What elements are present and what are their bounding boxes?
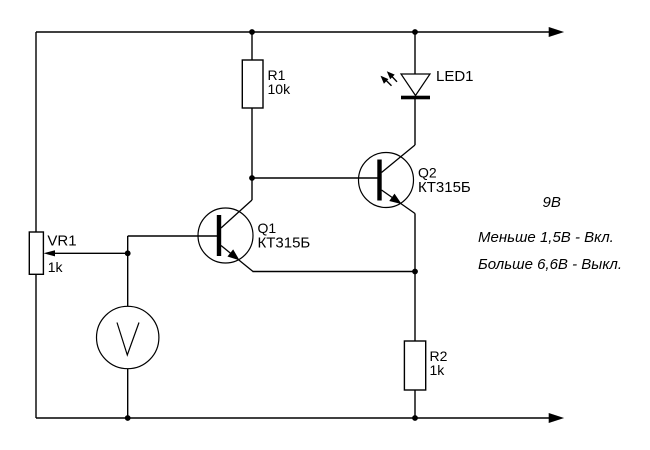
- wire Q1 base lead: [128, 235, 217, 237]
- wire Q2 emitter vertical: [414, 214, 416, 272]
- node Q1/Q2 emitter junction: [412, 269, 418, 275]
- wire top supply rail: [36, 31, 551, 33]
- voltmeter V: [97, 306, 159, 368]
- wire node to Q2 base: [252, 177, 378, 179]
- node LED top junction: [412, 29, 418, 35]
- resistor R2: [404, 341, 425, 390]
- wire R1 bottom lead to node: [251, 108, 253, 200]
- wire left vertical rail: [35, 32, 37, 418]
- resistor R1: [242, 60, 263, 108]
- supply arrow bottom right: [549, 413, 563, 422]
- svg-text:КТ315Б: КТ315Б: [258, 235, 311, 252]
- wire Q1 base to wiper and voltmeter: [127, 236, 129, 307]
- svg-text:1k: 1k: [430, 362, 446, 378]
- node R1 bottom / Q2 base junction: [249, 175, 255, 181]
- svg-text:КТ315Б: КТ315Б: [418, 179, 471, 196]
- node wiper junction: [125, 250, 131, 256]
- wire Q1 emitter horizontal to node: [253, 271, 416, 273]
- transistor Q2: [359, 145, 416, 214]
- node R2 bottom junction: [412, 415, 418, 421]
- svg-text:LED1: LED1: [436, 68, 474, 85]
- svg-text:9В: 9В: [543, 194, 561, 211]
- svg-text:VR1: VR1: [47, 233, 76, 250]
- node voltmeter bottom junction: [125, 415, 131, 421]
- potentiometer VR1: [29, 232, 127, 274]
- wire bottom rail: [36, 417, 551, 419]
- supply arrow top right: [549, 27, 563, 36]
- svg-text:Больше 6,6В - Выкл.: Больше 6,6В - Выкл.: [478, 256, 622, 273]
- wire voltmeter to bottom rail: [127, 369, 129, 419]
- wire LED anode lead: [414, 32, 416, 74]
- transistor Q1: [198, 200, 253, 272]
- wire node to R2 top: [414, 272, 416, 342]
- wire R2 bottom lead: [414, 390, 416, 418]
- svg-text:10k: 10k: [268, 81, 292, 97]
- wire R1 top lead: [251, 32, 253, 60]
- svg-text:Меньше 1,5В - Вкл.: Меньше 1,5В - Вкл.: [478, 229, 614, 246]
- node R1 top junction: [249, 29, 255, 35]
- wire LED cathode to Q2 collector: [414, 99, 416, 145]
- svg-text:1k: 1k: [48, 259, 64, 275]
- LED LED1: [381, 71, 431, 99]
